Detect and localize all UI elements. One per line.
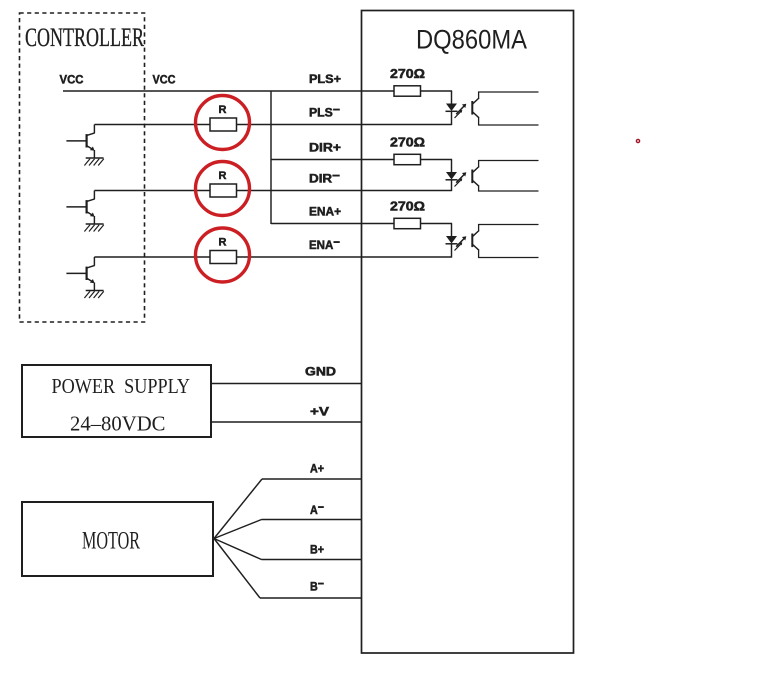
svg-text:ENA+: ENA+ (309, 205, 341, 219)
svg-text:PLS+: PLS+ (309, 72, 341, 86)
svg-text:270Ω: 270Ω (390, 136, 425, 150)
svg-text:24–80VDC: 24–80VDC (70, 412, 166, 436)
svg-text:R: R (219, 237, 227, 249)
svg-text:CONTROLLER: CONTROLLER (25, 23, 144, 52)
svg-text:DIR+: DIR+ (309, 141, 341, 155)
svg-text:A+: A+ (310, 462, 324, 476)
svg-text:B+: B+ (310, 543, 324, 557)
svg-text:270Ω: 270Ω (390, 67, 425, 81)
svg-text:MOTOR: MOTOR (82, 528, 140, 555)
svg-text:R: R (219, 104, 227, 116)
svg-text:VCC: VCC (60, 73, 84, 87)
svg-text:R: R (219, 170, 227, 182)
svg-text:DQ860MA: DQ860MA (416, 25, 527, 55)
svg-text:POWER SUPPLY: POWER SUPPLY (52, 374, 191, 398)
svg-text:+V: +V (310, 405, 329, 419)
svg-text:GND: GND (305, 365, 336, 379)
svg-text:270Ω: 270Ω (390, 200, 425, 214)
svg-text:VCC: VCC (153, 73, 176, 87)
